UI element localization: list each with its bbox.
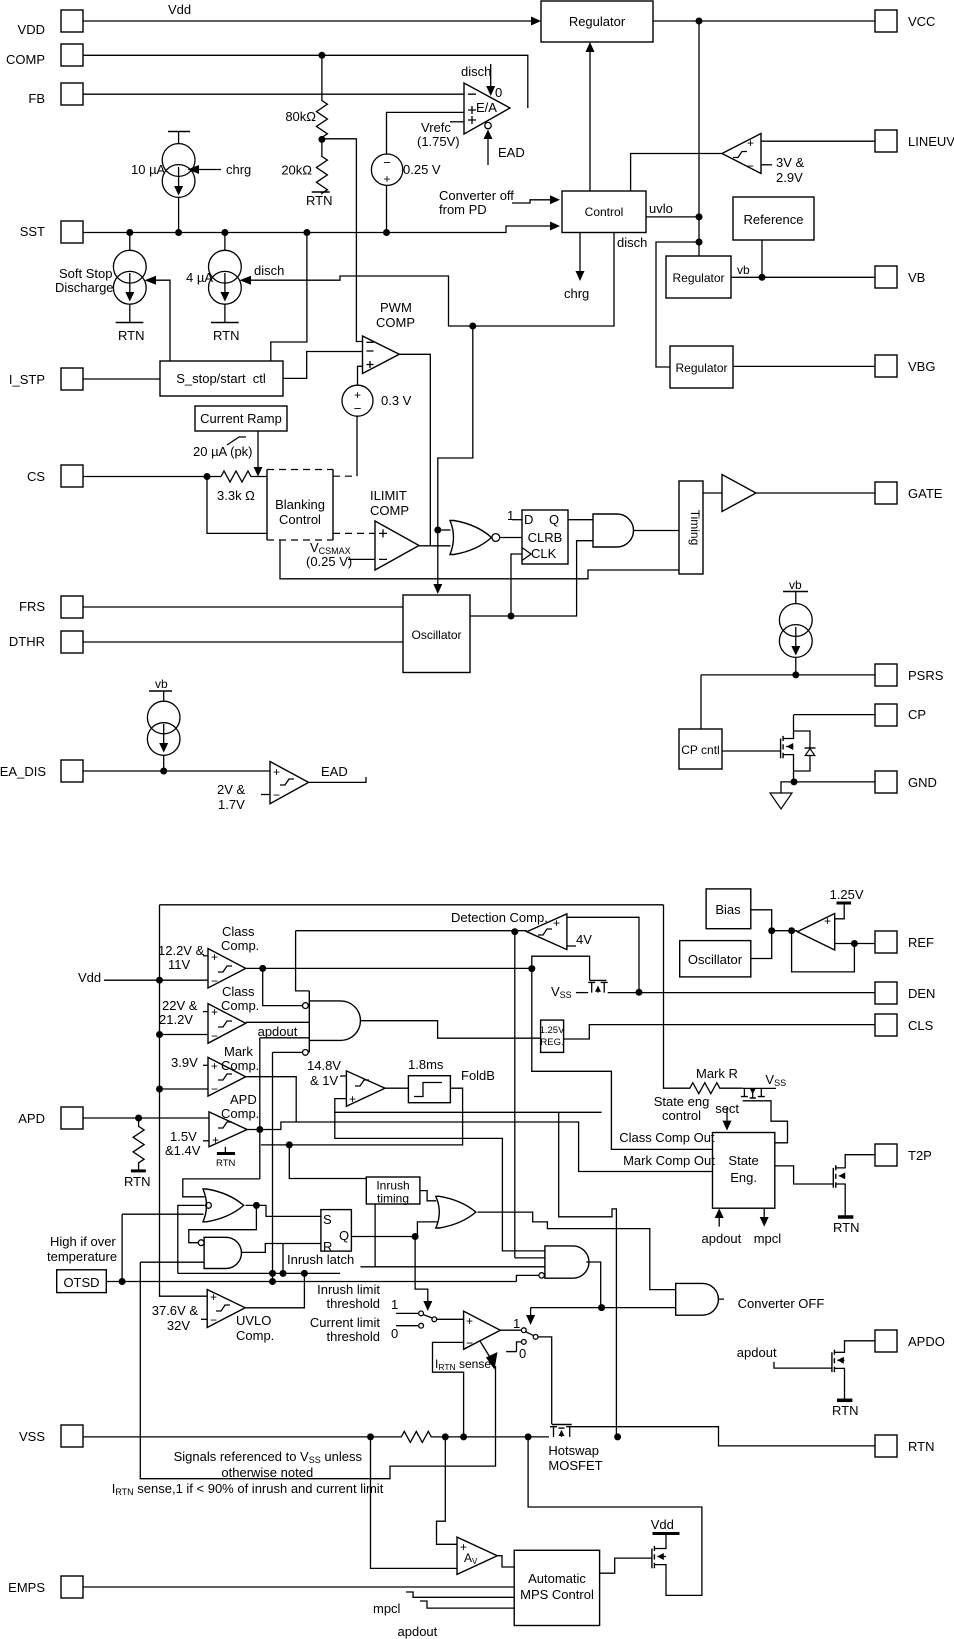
wire PSRS bbox=[701, 674, 875, 676]
svg-text:Comp.: Comp. bbox=[221, 998, 259, 1013]
svg-text:MOSFET: MOSFET bbox=[548, 1458, 602, 1473]
wire inrush timing bottom down bbox=[374, 1204, 376, 1267]
svg-text:Class: Class bbox=[222, 924, 255, 939]
ground RTN of APD comp bbox=[216, 1147, 235, 1169]
svg-text:FoldB: FoldB bbox=[461, 1068, 495, 1083]
wire GND pin bbox=[794, 781, 875, 783]
svg-text:+: + bbox=[211, 1005, 218, 1019]
wire AND-bubble bus vertical bbox=[273, 1052, 303, 1281]
label Inrush limit threshold bbox=[317, 1282, 380, 1311]
svg-text:RTN: RTN bbox=[833, 1220, 859, 1235]
pin DEN bbox=[875, 982, 935, 1004]
label Vrefc (1.75V) bbox=[417, 120, 464, 149]
svg-text:APD: APD bbox=[230, 1092, 257, 1107]
svg-text:+: + bbox=[211, 1059, 218, 1073]
comparator Class Comp 1 bbox=[158, 924, 259, 988]
wire UVLO out up to line A bbox=[245, 1273, 304, 1307]
svg-text:CS: CS bbox=[27, 469, 45, 484]
node DEN tap bbox=[636, 989, 643, 996]
svg-text:RTN: RTN bbox=[213, 328, 239, 343]
comparator LINEUV (points left) bbox=[722, 134, 761, 174]
node switch control junction bbox=[598, 1304, 605, 1311]
gate AND (detection/class) bbox=[303, 991, 361, 1055]
wire disch branch down to oscillator/NOR bbox=[433, 326, 473, 594]
wire IRTN comp out to switch2 bbox=[500, 1328, 538, 1361]
svg-text:+: + bbox=[383, 172, 390, 186]
box OTSD bbox=[47, 1234, 117, 1293]
wire VSS to Av plus bbox=[437, 1437, 458, 1544]
svg-text:+: + bbox=[466, 1314, 473, 1328]
svg-text:2V &: 2V & bbox=[217, 782, 246, 797]
wire hotswap drain to RTN pin bbox=[573, 1427, 875, 1446]
label 20uA pk with ramp glyph bbox=[193, 437, 253, 459]
svg-text:mpcl: mpcl bbox=[754, 1231, 782, 1246]
svg-text:Class Comp Out: Class Comp Out bbox=[619, 1130, 715, 1145]
svg-text:COMP: COMP bbox=[6, 52, 45, 67]
source 0.3V bbox=[342, 385, 412, 416]
resistor 80k bbox=[285, 55, 327, 139]
svg-text:0: 0 bbox=[519, 1346, 526, 1361]
svg-text:Control: Control bbox=[585, 205, 624, 219]
box S_stop/start ctl bbox=[160, 361, 283, 396]
label Vdd + wire bbox=[78, 970, 208, 985]
transistor CP (NMOS) bbox=[722, 715, 794, 782]
wire Mark minus from bus bbox=[160, 1088, 209, 1090]
svg-text:Inrush limit: Inrush limit bbox=[317, 1282, 380, 1297]
svg-text:RTN: RTN bbox=[306, 193, 332, 208]
pin T2P bbox=[875, 1144, 932, 1166]
svg-text:−: − bbox=[747, 159, 754, 173]
comparator REF (points left) bbox=[797, 914, 834, 951]
wire MPS out to Vdd FET gate bbox=[600, 1558, 652, 1573]
pin VBG bbox=[875, 355, 935, 377]
svg-text:−: − bbox=[211, 974, 218, 988]
svg-text:+: + bbox=[747, 136, 754, 150]
svg-text:DTHR: DTHR bbox=[9, 634, 45, 649]
pin APD bbox=[18, 1107, 83, 1129]
svg-text:Regulator: Regulator bbox=[675, 361, 727, 375]
svg-text:Oscillator: Oscillator bbox=[688, 952, 743, 967]
wire OTSD line B bbox=[106, 1281, 516, 1283]
wire blanking bottom to Timing bbox=[280, 540, 679, 579]
current source vb (EA_DIS) bbox=[147, 677, 180, 771]
svg-text:High if over: High if over bbox=[50, 1234, 116, 1249]
wire Class1 to AND bubble bbox=[263, 968, 303, 1005]
pin FRS bbox=[19, 596, 83, 618]
wire 4AND output down to converter-off line bbox=[586, 1262, 600, 1308]
node vb bbox=[759, 274, 766, 281]
box Inrush latch (S/R) bbox=[287, 1210, 354, 1267]
pin EA_DIS bbox=[0, 760, 83, 782]
svg-text:T2P: T2P bbox=[908, 1148, 932, 1163]
svg-text:Bias: Bias bbox=[715, 902, 741, 917]
svg-text:21.2V: 21.2V bbox=[159, 1012, 193, 1027]
gate NOR (PWM/ILIMIT) bbox=[450, 521, 522, 555]
node COMP/divider bbox=[318, 52, 325, 59]
svg-text:VDD: VDD bbox=[18, 22, 45, 37]
pin CS bbox=[27, 465, 83, 487]
wire VBG bbox=[733, 365, 875, 367]
wire vb to VB pin bbox=[731, 263, 875, 277]
node SST junctions bbox=[126, 229, 133, 236]
label FoldB bbox=[461, 1068, 495, 1083]
node NOR upper input bbox=[434, 527, 441, 534]
pin FB bbox=[28, 83, 83, 106]
wire Q to AND bbox=[568, 519, 593, 521]
switch inrush/current threshold bbox=[391, 1297, 464, 1341]
box Inrush timing bbox=[366, 1177, 420, 1206]
label IRTN sense bbox=[435, 1357, 491, 1372]
pin APDO bbox=[875, 1330, 945, 1352]
arrow apdout into State Eng bbox=[702, 1208, 742, 1246]
wire ILIMIT out to NOR lower bbox=[419, 545, 451, 547]
svg-text:0.3 V: 0.3 V bbox=[381, 393, 412, 408]
node Vdd bus taps bbox=[156, 977, 163, 984]
pin GND bbox=[875, 771, 937, 793]
wire OR out to NAND bubble bbox=[189, 1205, 257, 1242]
svg-text:1: 1 bbox=[391, 1297, 398, 1312]
svg-text:+: + bbox=[210, 1290, 217, 1304]
current source 4uA bbox=[186, 233, 241, 344]
svg-text:APD: APD bbox=[18, 1111, 45, 1126]
wire APD comp out bbox=[247, 1122, 712, 1172]
comparator UVLO bbox=[152, 1290, 275, 1344]
box Oscillator bbox=[403, 595, 470, 673]
pin DTHR bbox=[9, 631, 83, 653]
box CP cntl bbox=[679, 729, 722, 769]
svg-text:1: 1 bbox=[507, 508, 514, 523]
svg-text:State: State bbox=[728, 1153, 758, 1168]
svg-text:VBG: VBG bbox=[908, 359, 935, 374]
svg-text:37.6V &: 37.6V & bbox=[152, 1303, 199, 1318]
wire PSRS down to CP cntl bbox=[700, 675, 702, 729]
svg-text:+: + bbox=[349, 1092, 356, 1106]
svg-text:RTN: RTN bbox=[118, 328, 144, 343]
svg-text:COMP: COMP bbox=[376, 315, 415, 330]
svg-text:RTN: RTN bbox=[124, 1174, 150, 1189]
svg-text:S: S bbox=[323, 1212, 332, 1227]
svg-text:3.9V: 3.9V bbox=[171, 1055, 198, 1070]
svg-text:+: + bbox=[824, 914, 831, 928]
wire COMP bbox=[83, 55, 528, 108]
wire class down to State Eng bbox=[532, 969, 713, 1150]
svg-text:EAD: EAD bbox=[498, 145, 525, 160]
svg-text:OTSD: OTSD bbox=[63, 1275, 99, 1290]
wire IRTN sense into NAND bbox=[140, 1261, 204, 1263]
arrow IRTN sense down bbox=[140, 1262, 497, 1479]
comparator Class Comp 2 bbox=[159, 984, 259, 1043]
wire Mark out down to 1122 line bbox=[246, 1077, 297, 1122]
label apdout at APDO FET bbox=[737, 1345, 777, 1360]
svg-text:UVLO: UVLO bbox=[236, 1313, 271, 1328]
label IRTN sense line bbox=[112, 1481, 384, 1497]
wire Q out to OR2 bbox=[351, 1222, 437, 1237]
wire APD pin bbox=[83, 1117, 209, 1119]
svg-text:Comp.: Comp. bbox=[236, 1328, 274, 1343]
svg-text:vb: vb bbox=[737, 263, 750, 277]
Regulator box (VCC) bbox=[541, 1, 653, 42]
wire SST into S_stop box top bbox=[271, 233, 307, 362]
wire Class1 out bbox=[246, 967, 532, 969]
wire S_stop out to PWM minus2 bbox=[283, 352, 363, 379]
svg-text:1.5V: 1.5V bbox=[170, 1129, 197, 1144]
svg-text:GND: GND bbox=[908, 775, 937, 790]
svg-text:apdout: apdout bbox=[398, 1624, 438, 1639]
svg-text:4 µA: 4 µA bbox=[186, 270, 213, 285]
pin REF bbox=[875, 931, 934, 953]
label State eng control / sect bbox=[654, 1094, 740, 1131]
wire detection down to 4AND input2 bbox=[515, 1257, 545, 1259]
arrow chrg into 10uA bbox=[188, 162, 252, 177]
svg-text:3.3k Ω: 3.3k Ω bbox=[217, 488, 255, 503]
wire FoldB plus input bbox=[335, 1099, 602, 1113]
wire 1.8ms out down-left bbox=[261, 1088, 463, 1145]
svg-text:1: 1 bbox=[513, 1316, 520, 1331]
diode CP body bbox=[794, 731, 816, 771]
svg-text:FB: FB bbox=[28, 91, 45, 106]
op-amp ILIMIT COMP bbox=[370, 488, 419, 570]
svg-text:COMP: COMP bbox=[370, 503, 409, 518]
svg-text:VCC: VCC bbox=[908, 14, 935, 29]
svg-text:Converter off: Converter off bbox=[439, 188, 514, 203]
box State Eng bbox=[713, 1133, 775, 1209]
svg-text:S_stop/start ctl: S_stop/start ctl bbox=[176, 371, 266, 386]
wire VCC vertical down to Regulator(vb) bbox=[698, 21, 700, 256]
label Mark Comp Out bbox=[623, 1153, 715, 1168]
current source Soft Stop Discharge bbox=[55, 233, 146, 344]
node uvlo/VCC rail bbox=[696, 213, 703, 220]
wire top rail bbox=[160, 904, 664, 906]
svg-text:80kΩ: 80kΩ bbox=[285, 109, 316, 124]
wire OR2 out to Converter-OFF AND bbox=[478, 1212, 676, 1290]
flip-flop CLRB bbox=[507, 508, 568, 564]
wire Q branch down to switch bbox=[415, 1237, 432, 1312]
svg-text:D: D bbox=[524, 512, 533, 527]
wire E/A plus1 from 0.25V bbox=[387, 112, 465, 154]
svg-text:REG.: REG. bbox=[540, 1037, 563, 1048]
svg-text:Current Ramp: Current Ramp bbox=[200, 411, 282, 426]
wire CS bbox=[83, 476, 221, 478]
svg-text:Vdd: Vdd bbox=[651, 1517, 674, 1532]
wire Regulator to VCC bbox=[653, 20, 875, 22]
wire OTSD into OR bottom bbox=[122, 1213, 203, 1215]
pin RTN bbox=[875, 1435, 934, 1457]
svg-text:vb: vb bbox=[155, 677, 168, 691]
box Oscillator (PD) bbox=[680, 941, 751, 977]
svg-text:Blanking: Blanking bbox=[275, 497, 325, 512]
svg-text:LINEUV: LINEUV bbox=[908, 134, 954, 149]
gate OR (apdout/uvlo/otsd) bbox=[203, 1189, 244, 1222]
svg-text:−: − bbox=[210, 1313, 217, 1327]
pin SST bbox=[20, 221, 83, 243]
svg-text:RTN: RTN bbox=[832, 1403, 858, 1418]
pin VB bbox=[875, 266, 925, 288]
node Q branch bbox=[412, 1233, 419, 1240]
gate AND Converter OFF bbox=[676, 1283, 825, 1315]
svg-text:−: − bbox=[383, 155, 391, 170]
wire NAND out to latch R bbox=[242, 1244, 321, 1253]
svg-text:10 µA: 10 µA bbox=[131, 162, 166, 177]
gate AND 4-input (converter off logic) bbox=[539, 1246, 589, 1278]
node FoldB return bbox=[286, 1141, 293, 1148]
comparator FoldB (14.8V & 1V) bbox=[307, 1058, 385, 1106]
svg-text:DEN: DEN bbox=[908, 986, 935, 1001]
svg-text:CLK: CLK bbox=[531, 546, 557, 561]
svg-text:EA_DIS: EA_DIS bbox=[0, 764, 46, 779]
svg-text:Comp.: Comp. bbox=[221, 938, 259, 953]
label Converter off from PD + arrow bbox=[439, 188, 560, 217]
box Reference bbox=[733, 197, 814, 240]
source 0.25V bbox=[371, 154, 441, 186]
svg-text:IRTN sense,1 if < 90% of inrus: IRTN sense,1 if < 90% of inrush and curr… bbox=[112, 1481, 384, 1497]
svg-text:apdout: apdout bbox=[737, 1345, 777, 1360]
svg-text:FRS: FRS bbox=[19, 599, 45, 614]
wire Av out to MPS box bbox=[497, 1556, 514, 1567]
wire PWM output down to NOR bbox=[399, 354, 430, 546]
box Bias bbox=[706, 889, 751, 929]
svg-text:CLS: CLS bbox=[908, 1018, 934, 1033]
svg-text:2.9V: 2.9V bbox=[776, 170, 803, 185]
wire DEN FET gate from class line bbox=[532, 956, 590, 980]
svg-text:Regulator: Regulator bbox=[569, 14, 626, 29]
svg-text:+: + bbox=[354, 388, 361, 402]
wire OR out bbox=[246, 1205, 321, 1216]
svg-text:disch: disch bbox=[617, 235, 647, 250]
svg-text:disch: disch bbox=[461, 64, 491, 79]
svg-text:Mark: Mark bbox=[224, 1044, 253, 1059]
node CS bbox=[204, 473, 211, 480]
node VSS junctions bbox=[367, 1433, 374, 1440]
svg-text:−: − bbox=[211, 1029, 218, 1043]
svg-text:0.25 V: 0.25 V bbox=[403, 162, 441, 177]
svg-text:EMPS: EMPS bbox=[8, 1580, 45, 1595]
svg-text:temperature: temperature bbox=[47, 1249, 117, 1264]
gate AND (gate drive) bbox=[593, 514, 679, 547]
svg-text:ILIMIT: ILIMIT bbox=[370, 488, 407, 503]
svg-text:Inrush: Inrush bbox=[376, 1179, 409, 1193]
svg-text:vb: vb bbox=[789, 578, 802, 592]
wire switch2 control bbox=[513, 1308, 676, 1331]
svg-text:apdout: apdout bbox=[258, 1024, 298, 1039]
node APD divider bbox=[135, 1115, 142, 1122]
box 1.8ms one-shot bbox=[385, 1057, 450, 1103]
wire LINEUV comp out to Control bbox=[631, 154, 722, 192]
svg-text:+: + bbox=[211, 950, 218, 964]
wire REF feedback bbox=[792, 931, 855, 972]
svg-text:0: 0 bbox=[391, 1326, 398, 1341]
svg-text:Detection Comp.: Detection Comp. bbox=[451, 910, 548, 925]
comparator Detection (points left) bbox=[451, 910, 592, 950]
wire SST line bbox=[83, 222, 560, 233]
node GND bbox=[791, 778, 798, 785]
svg-text:Current limit: Current limit bbox=[310, 1315, 380, 1330]
box Current Ramp bbox=[195, 406, 287, 431]
current source vb (PSRS) bbox=[779, 578, 812, 675]
box Regulator (VBG) bbox=[670, 346, 733, 388]
svg-text:Reference: Reference bbox=[744, 212, 804, 227]
wire inrush timing out to OR2 bbox=[420, 1191, 436, 1201]
wire dashed blanking to ILIMIT plus bbox=[333, 532, 375, 534]
node disch branch bbox=[469, 323, 476, 330]
arrow chrg down from Control bbox=[564, 233, 589, 302]
svg-text:20kΩ: 20kΩ bbox=[281, 163, 312, 178]
comparator APD Comp bbox=[165, 1092, 259, 1158]
svg-text:Q: Q bbox=[549, 512, 559, 527]
resistor 20k bbox=[281, 139, 327, 193]
pin CLS bbox=[875, 1014, 934, 1036]
svg-text:Vdd: Vdd bbox=[78, 970, 101, 985]
svg-text:State eng: State eng bbox=[654, 1094, 710, 1109]
resistor APD to RTN bbox=[124, 1118, 150, 1189]
wire EAD output bbox=[309, 764, 366, 782]
svg-text:E/A: E/A bbox=[476, 100, 497, 115]
svg-text:otherwise noted: otherwise noted bbox=[221, 1465, 313, 1480]
svg-text:Mark R: Mark R bbox=[696, 1066, 738, 1081]
wire VSS to Av minus bbox=[371, 1437, 458, 1569]
transistor T2P FET bbox=[833, 1155, 875, 1235]
supply 1.25V bbox=[830, 887, 864, 919]
pin VDD bbox=[18, 10, 83, 37]
transistor Vdd FET (MPS) bbox=[651, 1517, 680, 1571]
wire to Inrush timing bbox=[289, 1145, 366, 1179]
arrow Current Ramp into CS node bbox=[254, 431, 263, 477]
svg-text:32V: 32V bbox=[167, 1318, 190, 1333]
svg-text:Hotswap: Hotswap bbox=[548, 1443, 599, 1458]
svg-text:12.2V &: 12.2V & bbox=[158, 943, 205, 958]
wire dashed blanking to 0.3V bbox=[333, 475, 357, 477]
label Class Comp Out bbox=[619, 1130, 715, 1145]
box Automatic MPS Control bbox=[514, 1550, 599, 1625]
svg-text:Oscillator: Oscillator bbox=[411, 628, 461, 642]
box Control bbox=[562, 191, 646, 233]
node PSRS bbox=[792, 671, 799, 678]
wire CP pin bbox=[794, 714, 875, 716]
label uvlo + wire bbox=[646, 201, 699, 217]
box Blanking Control (dashed) bbox=[267, 470, 333, 541]
wire FB to E/A bbox=[83, 93, 464, 95]
wire Class2 out to AND bbox=[246, 1021, 310, 1023]
op-amp PWM COMP bbox=[363, 300, 416, 374]
node osc/CLK bbox=[508, 613, 515, 620]
wire switch2 pole down to hotswap gate bbox=[538, 1337, 552, 1424]
svg-text:disch: disch bbox=[254, 263, 284, 278]
amplifier Av bbox=[457, 1537, 497, 1574]
svg-text:APDO: APDO bbox=[908, 1334, 945, 1349]
wire lineA into OR bubble bbox=[178, 1205, 205, 1273]
svg-text:threshold: threshold bbox=[327, 1329, 380, 1344]
wire EMPS bbox=[83, 1586, 514, 1588]
label apdout + underline bbox=[258, 1024, 310, 1039]
svg-text:1.25V: 1.25V bbox=[830, 887, 864, 902]
svg-text:(0.25 V): (0.25 V) bbox=[306, 554, 352, 569]
label Current limit threshold bbox=[310, 1315, 380, 1344]
svg-text:Vrefc: Vrefc bbox=[421, 120, 451, 135]
wire line A (uvlo net) bbox=[178, 1272, 340, 1274]
label 3V & 2.9V bbox=[761, 155, 805, 185]
wire Vdd bus vertical bbox=[160, 905, 208, 1296]
svg-text:MPS Control: MPS Control bbox=[520, 1587, 594, 1602]
wire foldback chain down to VSS bbox=[559, 1112, 617, 1437]
label Signals referenced bbox=[174, 1449, 363, 1480]
wire Detection out rail bbox=[296, 930, 527, 932]
current source 10uA chrg bbox=[131, 132, 195, 233]
svg-text:RTN: RTN bbox=[908, 1439, 934, 1454]
svg-text:Class: Class bbox=[222, 984, 255, 999]
wire VDD to Regulator bbox=[83, 2, 541, 26]
wires Bias/Osc to buffer bbox=[751, 910, 772, 959]
wire AND out to 1.25V REG bbox=[361, 1021, 541, 1038]
svg-text:I_STP: I_STP bbox=[9, 372, 45, 387]
